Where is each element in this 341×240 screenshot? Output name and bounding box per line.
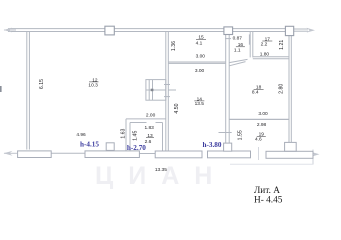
svg-text:0.87: 0.87 [233,36,243,42]
svg-text:4.1: 4.1 [196,40,203,46]
svg-text:1.36: 1.36 [171,41,177,51]
svg-text:1.1: 1.1 [234,47,241,53]
svg-text:16: 16 [238,42,244,48]
svg-text:4.96: 4.96 [76,132,86,138]
svg-text:18: 18 [256,85,262,91]
svg-text:2.80: 2.80 [279,84,285,94]
svg-text:13.35: 13.35 [155,167,167,173]
svg-text:h-2.70: h-2.70 [127,144,146,152]
svg-text:4.50: 4.50 [174,103,180,113]
svg-text:1.83: 1.83 [145,125,155,131]
svg-text:6.15: 6.15 [39,79,45,89]
svg-text:1.21: 1.21 [279,40,285,50]
svg-text:13.5: 13.5 [195,101,205,107]
svg-text:ЦИАН: ЦИАН [95,162,227,190]
svg-text:1.80: 1.80 [260,52,270,58]
svg-text:2.98: 2.98 [257,122,267,128]
svg-text:3.00: 3.00 [258,111,268,117]
svg-text:h-4.15: h-4.15 [80,140,99,148]
svg-text:1.45: 1.45 [133,131,139,141]
svg-text:2.00: 2.00 [146,113,156,119]
svg-text:3.00: 3.00 [196,54,206,60]
svg-text:2.2: 2.2 [261,42,268,48]
svg-text:13: 13 [147,133,153,139]
svg-text:8.4: 8.4 [252,90,259,96]
svg-text:h-3.80: h-3.80 [203,141,222,149]
svg-text:4.6: 4.6 [255,136,262,142]
svg-text:1.55: 1.55 [237,130,243,140]
svg-text:10.3: 10.3 [88,82,98,88]
svg-text:15: 15 [198,35,204,41]
svg-text:3.00: 3.00 [195,68,205,74]
svg-text:Н- 4.45: Н- 4.45 [254,195,283,205]
svg-text:1.63: 1.63 [120,128,126,138]
svg-text:17: 17 [265,36,271,42]
